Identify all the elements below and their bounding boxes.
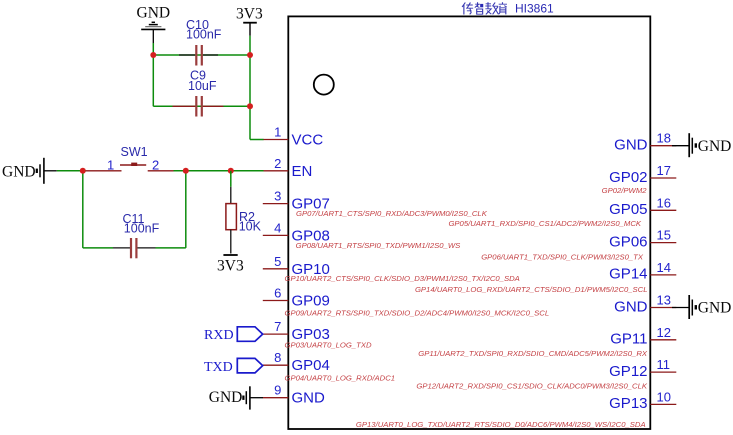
svg-text:GP02: GP02 <box>609 169 647 186</box>
capacitor C11 <box>113 238 156 258</box>
svg-text:10K: 10K <box>239 220 262 234</box>
pin 8 GP04 wire <box>263 364 289 366</box>
pin 7 GP03 wire <box>263 333 289 335</box>
svg-text:GND: GND <box>209 389 243 406</box>
svg-text:GP03/UART0_LOG_TXD: GP03/UART0_LOG_TXD <box>285 341 372 350</box>
svg-text:RXD: RXD <box>204 328 234 343</box>
pin 2 EN wire <box>263 170 289 172</box>
svg-text:GP09: GP09 <box>292 293 330 310</box>
svg-text:GP07/UART1_CTS/SPI0_RXD/ADC3/P: GP07/UART1_CTS/SPI0_RXD/ADC3/PWM0/I2S0_C… <box>296 209 488 218</box>
svg-text:GP10/UART2_CTS/SPI0_CLK/SDIO_D: GP10/UART2_CTS/SPI0_CLK/SDIO_D3/PWM1/I2S… <box>285 274 520 283</box>
svg-text:GP05: GP05 <box>609 201 647 218</box>
svg-text:GP11: GP11 <box>610 331 647 348</box>
svg-text:GND: GND <box>698 300 732 317</box>
svg-text:3: 3 <box>274 189 281 204</box>
svg-text:GP06: GP06 <box>609 233 647 250</box>
pin 3 GP07 wire <box>263 203 289 205</box>
svg-text:3V3: 3V3 <box>236 6 263 23</box>
power bar symbol 3V3 bottom <box>223 254 237 256</box>
pin 12 GP11 wire <box>650 339 676 341</box>
svg-text:GP08/UART1_RTS/SPI0_TXD/PWM1/I: GP08/UART1_RTS/SPI0_TXD/PWM1/I2S0_WS <box>296 241 462 250</box>
wire C11 left vertical <box>82 171 84 248</box>
wire C11 bottom row <box>83 247 113 249</box>
junction dot GND/C10 row <box>150 52 156 58</box>
svg-text:GND: GND <box>292 390 326 407</box>
svg-text:GP06/UART1_TXD/SPI0_CLK/PWM3/I: GP06/UART1_TXD/SPI0_CLK/PWM3/I2S0_TX <box>481 252 644 261</box>
svg-text:2: 2 <box>152 157 159 172</box>
ground bar symbol left <box>36 158 57 184</box>
wire C10 row horizontal <box>153 54 250 56</box>
svg-text:GP11/UART2_TXD/SPI0_RXD/SDIO_C: GP11/UART2_TXD/SPI0_RXD/SDIO_CMD/ADC5/PW… <box>418 349 648 358</box>
svg-text:10uF: 10uF <box>188 79 217 93</box>
pin 18 GND wire <box>650 145 676 147</box>
wire C11 right vertical <box>185 171 187 248</box>
port TXD flag <box>237 358 262 373</box>
pin 11 GP12 wire <box>650 371 676 373</box>
svg-text:SW1: SW1 <box>121 145 148 159</box>
svg-text:13: 13 <box>657 293 671 308</box>
pin 6 GP09 wire <box>263 300 289 302</box>
svg-text:1: 1 <box>274 125 281 140</box>
svg-text:GP12: GP12 <box>609 363 647 380</box>
svg-text:5: 5 <box>274 254 281 269</box>
switch SW1 <box>86 163 174 171</box>
pin 14 GP14 wire <box>650 274 676 276</box>
svg-text:GP04: GP04 <box>292 357 330 374</box>
ground bar symbol pin9 <box>242 386 263 409</box>
svg-text:GP12/UART2_RXD/SPI0_CS1/SDIO_C: GP12/UART2_RXD/SPI0_CS1/SDIO_CLK/ADC0/PW… <box>416 382 647 391</box>
svg-text:15: 15 <box>657 228 671 243</box>
ground bar symbol pin18 <box>672 133 697 157</box>
pin 15 GP06 wire <box>650 242 676 244</box>
pin 16 GP05 wire <box>650 209 676 211</box>
capacitor C10 <box>179 45 218 66</box>
wire left vertical from top GND to C9 row <box>152 43 154 106</box>
wire EN row segment 1 <box>57 170 86 172</box>
capacitor C9 <box>173 96 224 117</box>
wire elbow to VCC pin <box>250 139 264 141</box>
ground bar symbol pin13 <box>672 295 697 319</box>
svg-text:GP09/UART2_RTS/SPI0_TXD/SDIO_D: GP09/UART2_RTS/SPI0_TXD/SDIO_D2/ADC4/PWM… <box>285 309 550 318</box>
svg-text:VCC: VCC <box>292 132 324 149</box>
svg-text:8: 8 <box>274 350 281 365</box>
svg-text:17: 17 <box>657 163 671 178</box>
pin 1 VCC wire <box>263 139 289 141</box>
pin 5 GP10 wire <box>263 268 289 270</box>
svg-text:GP13: GP13 <box>609 395 647 412</box>
svg-text:12: 12 <box>657 325 671 340</box>
svg-text:7: 7 <box>274 319 281 334</box>
junction dot EN/R2 <box>228 168 234 174</box>
ground earth symbol top <box>141 22 165 43</box>
junction dot EN/C11 left <box>80 168 86 174</box>
wire C9 row horizontal <box>153 105 250 107</box>
junction dot 3V3/C9 row <box>247 103 253 109</box>
pin 10 GP13 wire <box>650 403 676 405</box>
svg-text:EN: EN <box>292 163 313 180</box>
wire EN row segment 2 <box>174 170 264 172</box>
svg-text:GP13/UART0_LOG_TXD/UART2_RTS/S: GP13/UART0_LOG_TXD/UART2_RTS/SDIO_D0/ADC… <box>356 420 646 429</box>
svg-text:10: 10 <box>657 389 671 404</box>
svg-text:100nF: 100nF <box>186 27 222 41</box>
svg-text:14: 14 <box>657 260 671 275</box>
svg-text:2: 2 <box>274 156 281 171</box>
svg-text:HI3861: HI3861 <box>515 2 554 16</box>
svg-text:GND: GND <box>698 138 732 155</box>
svg-text:9: 9 <box>274 383 281 398</box>
svg-text:1: 1 <box>107 157 114 172</box>
junction dot 3V3/C10 row <box>247 52 253 58</box>
svg-text:100nF: 100nF <box>124 222 160 236</box>
svg-text:GP05/UART1_RXD/SPI0_CS1/ADC2/P: GP05/UART1_RXD/SPI0_CS1/ADC2/PWM2/I2S0_M… <box>448 219 641 228</box>
svg-text:GND: GND <box>614 137 648 154</box>
svg-text:6: 6 <box>274 286 281 301</box>
pin 9 GND wire <box>263 397 289 399</box>
svg-text:GP02/PWM2: GP02/PWM2 <box>602 186 648 195</box>
power bar symbol 3V3 top <box>243 23 257 36</box>
svg-text:GP14/UART0_LOG_RXD/UART2_CTS/S: GP14/UART0_LOG_RXD/UART2_CTS/SDIO_D1/PWM… <box>415 285 648 294</box>
port RXD flag <box>237 327 262 342</box>
resistor R2 <box>226 187 237 254</box>
wire R2 top <box>230 171 232 187</box>
svg-text:GP04/UART0_LOG_RXD/ADC1: GP04/UART0_LOG_RXD/ADC1 <box>285 374 396 383</box>
svg-text:16: 16 <box>657 195 671 210</box>
svg-text:GND: GND <box>137 5 171 22</box>
op-amp U1 IC body HI3861 module rectangle <box>288 16 650 429</box>
svg-text:11: 11 <box>657 357 671 372</box>
svg-text:GND: GND <box>2 164 36 181</box>
pin 4 GP08 wire <box>263 234 289 236</box>
svg-text:GND: GND <box>614 298 648 315</box>
pin 13 GND wire <box>650 307 676 309</box>
svg-text:3V3: 3V3 <box>217 258 244 275</box>
svg-text:18: 18 <box>657 131 671 146</box>
pin-1 marker circle inside IC <box>314 75 334 95</box>
title 传智教育 HI3861 <box>462 2 507 14</box>
pin 17 GP02 wire <box>650 177 676 179</box>
svg-text:TXD: TXD <box>204 360 233 375</box>
wire right vertical 3V3 rail <box>249 36 251 140</box>
junction dot EN/C11 right <box>183 168 189 174</box>
svg-text:GP14: GP14 <box>609 266 647 283</box>
svg-text:4: 4 <box>274 220 281 235</box>
